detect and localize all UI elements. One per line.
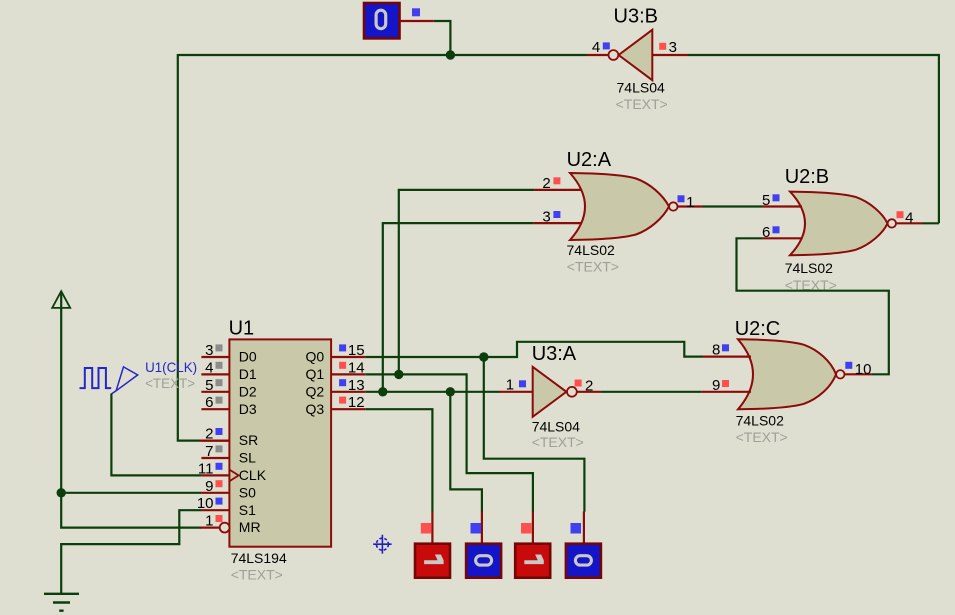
wire U2:C pin 8 stub [703, 356, 751, 358]
pin S1 (pin 10) of U1 [201, 509, 229, 511]
inverter U3:B (output bubble left) [619, 30, 653, 80]
svg-text:4: 4 [205, 359, 213, 376]
clock chevron on CLK pin [229, 470, 238, 482]
pin S0 (pin 9) of U1 [201, 492, 229, 494]
state square pin 8 of U2:C [722, 344, 729, 351]
svg-text:U3:B: U3:B [614, 6, 658, 28]
inverter U3:A [533, 367, 567, 417]
svg-text:MR: MR [239, 519, 261, 535]
svg-text:74LS194: 74LS194 [231, 550, 287, 566]
state square pin 3 [659, 43, 666, 50]
logicprobe 4 digit 0 [566, 544, 601, 578]
wire SR vertical from main net [178, 54, 201, 441]
svg-text:D1: D1 [239, 366, 257, 382]
pin MR (pin 1) of U1 [200, 526, 220, 528]
clock generator flag triangle [111, 367, 137, 394]
svg-text:<TEXT>: <TEXT> [231, 566, 283, 582]
svg-text:1: 1 [205, 513, 213, 530]
svg-text:2: 2 [205, 426, 213, 443]
state square probe 3 [521, 523, 532, 534]
pin CLK (pin 11) of U1 [201, 474, 229, 476]
svg-text:Q1: Q1 [306, 366, 325, 382]
pin Q0 (pin 15) of U1 [331, 356, 366, 358]
wire U3:B output net (horizontal) [178, 54, 587, 56]
nor gate U2:B [790, 192, 888, 256]
svg-text:Q2: Q2 [306, 383, 325, 399]
wire U2:A output stub pin 1 [678, 205, 703, 207]
logicprobe 1 digit 1 [415, 544, 450, 578]
svg-text:6: 6 [762, 224, 770, 241]
logicprobe 2 digit 0 [466, 544, 501, 578]
state square pin 2 of U3:A [575, 380, 582, 387]
junction Q1 to U2:A pin 2 [394, 370, 403, 379]
wire U2:A pin 2 stub [534, 189, 582, 191]
nor gate U2:C [738, 339, 836, 409]
svg-text:1: 1 [506, 377, 514, 394]
state square pin 4 [603, 42, 610, 49]
svg-text:74LS02: 74LS02 [785, 260, 833, 276]
svg-text:1: 1 [686, 194, 694, 211]
logicprobe 3 digit 1 [515, 544, 550, 578]
state indicator square (logicstate) [412, 8, 420, 16]
svg-text:6: 6 [205, 394, 213, 411]
svg-text:9: 9 [205, 478, 213, 495]
state square pin 3 of U2:A [553, 211, 560, 218]
wire probe 1 stub [431, 512, 433, 544]
junction Q0 branch [479, 352, 488, 361]
wire U3:B input to right vertical [688, 55, 939, 223]
svg-text:74LS02: 74LS02 [736, 412, 784, 428]
wire U2:B pin 6 stub [762, 237, 802, 239]
svg-text:4: 4 [592, 39, 600, 56]
svg-text:8: 8 [712, 341, 720, 358]
wire pin SR stub [200, 440, 230, 442]
wire U2:B pin 6 feedback net [737, 238, 889, 374]
svg-text:<TEXT>: <TEXT> [532, 434, 584, 450]
svg-text:13: 13 [348, 377, 365, 394]
state square pin 1 of U2:A [678, 195, 685, 202]
wire logicstate stub [400, 20, 434, 22]
state square probe 2 [471, 523, 482, 534]
pin SL (pin 7) of U1 [201, 457, 229, 459]
svg-text:SR: SR [239, 432, 258, 448]
svg-text:<TEXT>: <TEXT> [567, 259, 619, 275]
ic U1 74LS194 body [229, 339, 331, 546]
svg-text:4: 4 [905, 210, 913, 227]
wire probe 3 stub [532, 512, 534, 544]
svg-text:3: 3 [542, 208, 550, 225]
wire U2:A output to U2:B pin 5 [703, 205, 762, 207]
wire Q0 net to U2:C pin 8 [366, 342, 703, 357]
svg-text:15: 15 [348, 342, 365, 359]
svg-text:SL: SL [239, 450, 256, 466]
clock generator U1(CLK) squarewave glyph [80, 368, 112, 388]
pin Q2 (pin 13) of U1 [331, 391, 366, 393]
wire Q0 branch to probe 4 [484, 357, 585, 512]
svg-text:14: 14 [348, 359, 365, 376]
svg-text:2: 2 [585, 378, 593, 395]
wire U2:B output stub pin 4 [897, 222, 923, 224]
svg-text:U2:A: U2:A [567, 149, 612, 171]
wire U3:A input stub pin 1 [500, 391, 533, 393]
svg-text:12: 12 [348, 394, 365, 411]
svg-text:U2:C: U2:C [735, 318, 781, 340]
wire logicstate to main net [434, 21, 451, 55]
svg-text:S1: S1 [239, 502, 256, 518]
wire Q2 net to U3:A input [366, 391, 500, 393]
nor gate U2:A [570, 173, 669, 240]
svg-text:<TEXT>: <TEXT> [616, 96, 668, 112]
svg-text:U2:B: U2:B [785, 166, 829, 188]
pin Q1 (pin 14) of U1 [331, 373, 366, 375]
wire ground to S1 [61, 510, 201, 593]
wire U3:B output stub pin 4 [587, 54, 609, 56]
wire S0 from power rail [61, 492, 201, 494]
svg-text:D2: D2 [239, 383, 257, 399]
svg-text:9: 9 [712, 377, 720, 394]
svg-text:D0: D0 [239, 349, 257, 365]
svg-text:74LS04: 74LS04 [617, 80, 665, 96]
svg-text:2: 2 [542, 175, 550, 192]
wire probe 2 stub [481, 512, 483, 544]
state square pin 6 of U2:B [773, 226, 780, 233]
junction S0 branch [57, 488, 66, 497]
state square pin 2 of U2:A [553, 177, 560, 184]
svg-text:3: 3 [669, 39, 677, 56]
svg-text:D3: D3 [239, 401, 257, 417]
svg-text:<TEXT>: <TEXT> [145, 375, 195, 391]
wire U2:B pin 5 stub [762, 205, 802, 207]
svg-text:10: 10 [855, 361, 872, 378]
state square pin 4 of U2:B [897, 211, 904, 218]
wire U3:B input stub pin 3 [652, 54, 688, 56]
svg-text:74LS02: 74LS02 [567, 242, 615, 258]
junction at top net [446, 50, 455, 59]
pin D1 (pin 4) of U1 [201, 373, 229, 375]
wire U2:A pin 3 stub [534, 222, 582, 224]
svg-text:5: 5 [762, 192, 770, 209]
wire U3:A output to U2:C pin 9 [601, 391, 702, 393]
wire U3:A output stub pin 2 [577, 391, 601, 393]
wire Q2 branch to probe 2 [450, 392, 482, 512]
state square probe 1 [421, 523, 432, 534]
svg-text:<TEXT>: <TEXT> [736, 429, 788, 445]
state square pin 1 of U3:A [519, 380, 526, 387]
state square pin 9 of U2:C [722, 380, 729, 387]
wire probe 4 stub [583, 512, 585, 544]
junction Q2 branch to probe 2 [446, 387, 455, 396]
wire power rail vertical to MR [61, 293, 200, 528]
state square pin 10 of U2:C [845, 362, 852, 369]
pin D3 (pin 6) of U1 [201, 408, 229, 410]
pin D0 (pin 3) of U1 [201, 356, 229, 358]
wire Q2 to U2:A pin 3 [383, 223, 534, 392]
wire Q3 net to probe 1 [366, 409, 433, 512]
wire U2:C output stub pin 10 [845, 373, 871, 375]
junction Q2 to U2:A pin 3 [378, 387, 387, 396]
svg-text:74LS04: 74LS04 [532, 418, 580, 434]
state square probe 4 [571, 523, 582, 534]
wire U2:C pin 9 stub [702, 391, 751, 393]
svg-text:3: 3 [205, 342, 213, 359]
svg-text:Q3: Q3 [306, 401, 325, 417]
svg-text:5: 5 [205, 377, 213, 394]
pin Q3 (pin 12) of U1 [331, 408, 366, 410]
svg-text:U1: U1 [229, 318, 255, 340]
svg-text:7: 7 [205, 443, 213, 460]
logicstate input 0 (top) [364, 3, 400, 38]
pin SR (pin 2) of U1 [201, 440, 229, 442]
svg-text:Q0: Q0 [306, 349, 325, 365]
state square pin 5 of U2:B [773, 194, 780, 201]
svg-text:U1(CLK): U1(CLK) [145, 359, 197, 375]
svg-text:S0: S0 [239, 484, 256, 500]
svg-text:CLK: CLK [239, 467, 267, 483]
wire clock generator to CLK pin [111, 394, 201, 476]
wire Q1 to U2:A pin 2 [399, 190, 534, 375]
power terminal arrow [52, 291, 70, 308]
ground symbol [44, 594, 79, 611]
wire U2:B output to right vertical [923, 222, 939, 224]
svg-text:U3:A: U3:A [532, 343, 577, 365]
origin marker crosshair [373, 535, 391, 554]
pin D2 (pin 5) of U1 [201, 391, 229, 393]
wire Q1 net to probe 3 [366, 374, 533, 511]
